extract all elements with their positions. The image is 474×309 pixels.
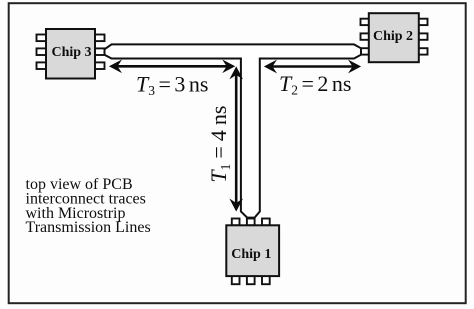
svg-text:T1 = 4 ns: T1 = 4 ns [206, 106, 233, 183]
svg-text:Chip 1: Chip 1 [231, 247, 271, 262]
svg-text:Chip 3: Chip 3 [51, 45, 91, 60]
svg-text:T3 = 3 ns: T3 = 3 ns [136, 71, 208, 98]
svg-text:Transmission Lines: Transmission Lines [26, 219, 151, 236]
svg-text:Chip 2: Chip 2 [373, 29, 413, 44]
svg-text:T2 = 2 ns: T2 = 2 ns [279, 71, 351, 98]
